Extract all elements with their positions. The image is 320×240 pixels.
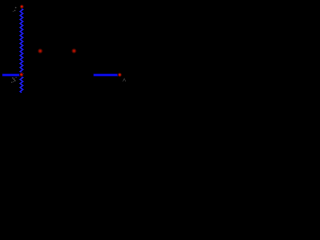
label smudge (gray caret, below right wire end)	[123, 79, 126, 82]
label smudge (gray cluster, below left wire)	[11, 77, 17, 83]
node post (top of R1, red terminal)	[20, 4, 24, 8]
label smudge (gray, near top post)	[13, 7, 17, 12]
wire (bottom-left horizontal)	[2, 74, 20, 77]
node junction (R1 / left wire, red dot)	[19, 72, 24, 77]
node B (isolated red post, right-middle)	[71, 48, 77, 54]
resistor R1 (vertical zigzag body)	[20, 8, 23, 92]
background	[0, 0, 130, 95]
wire (bottom-right horizontal)	[94, 74, 119, 77]
node A (isolated red post, left-middle)	[37, 48, 43, 54]
node post (right end of bottom-right wire, red dot)	[117, 73, 122, 78]
